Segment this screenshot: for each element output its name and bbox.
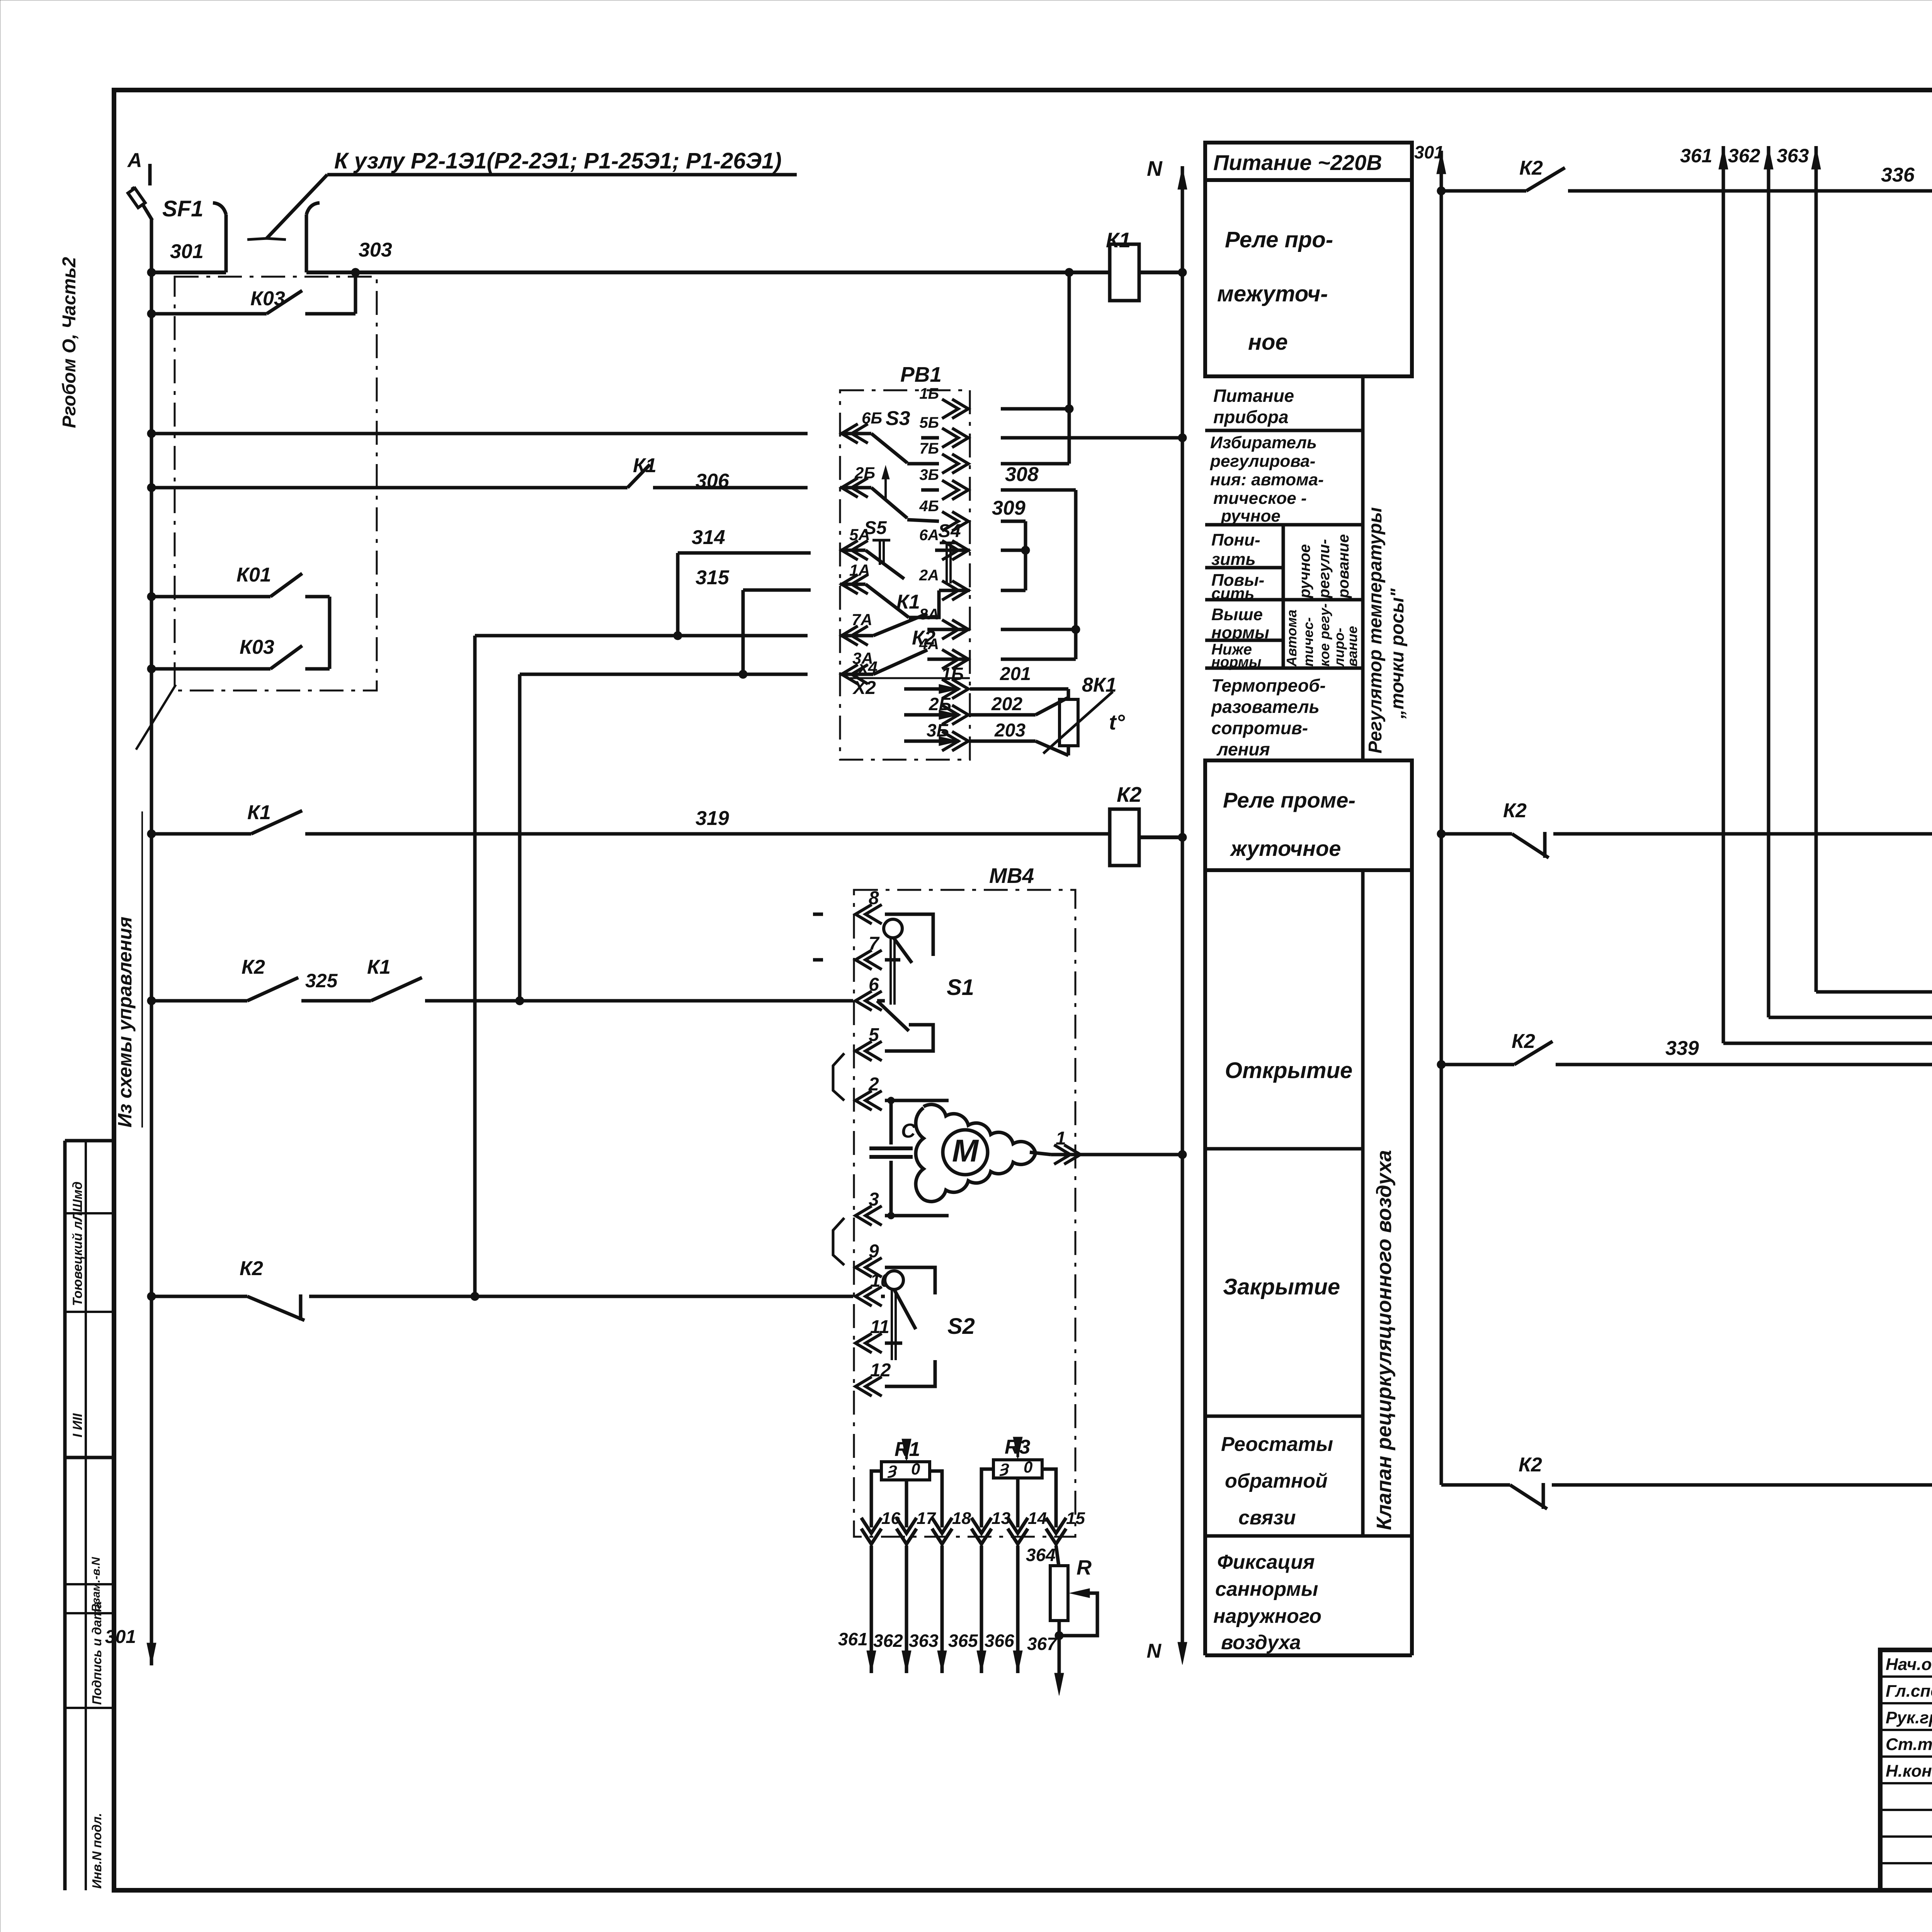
svg-text:Автома: Автома: [1284, 610, 1299, 667]
wire 301: [151, 270, 226, 274]
title block outer: [1880, 1650, 1932, 1890]
svg-text:тичес-: тичес-: [1300, 617, 1316, 667]
svg-text:регулирова-: регулирова-: [1210, 452, 1315, 471]
R3 right lead: [1042, 1469, 1056, 1527]
svg-text:ȝ: ȝ: [999, 1458, 1009, 1476]
svg-text:14: 14: [1028, 1509, 1047, 1528]
PB1 pin 2Б: [842, 478, 868, 497]
svg-text:315: 315: [696, 566, 730, 589]
contact K03 lower: [270, 646, 302, 669]
title sig rows: [1880, 1675, 1932, 1678]
wire 303: [306, 270, 1111, 274]
svg-text:Выше: Выше: [1211, 605, 1263, 624]
MV4 pin 17: [896, 1518, 917, 1544]
svg-text:308: 308: [1005, 463, 1039, 486]
PB1 dash box: [840, 390, 970, 760]
svg-text:разователь: разователь: [1211, 697, 1320, 717]
PB1 pin 2А: [942, 581, 968, 600]
table bottom: [1205, 1653, 1412, 1657]
svg-text:К2: К2: [1503, 799, 1527, 822]
R3 wiper arrow: [1017, 1442, 1019, 1457]
contact K01: [270, 573, 302, 597]
wire 362 riser top: [1767, 146, 1770, 166]
R3 wiper lead: [1016, 1478, 1020, 1527]
svg-text:Гл.спец.: Гл.спец.: [1886, 1682, 1932, 1701]
wire PB1 feed vertical: [1068, 272, 1071, 464]
thermistor 8K1: [1060, 699, 1078, 746]
MV4 S2 pivot: [885, 1271, 903, 1289]
mech linkage box K0: [175, 277, 377, 690]
wire 367 bottom: [1058, 1636, 1061, 1673]
svg-text:1Б: 1Б: [919, 385, 939, 402]
junction 7A row bottom: [471, 1292, 479, 1301]
R1 right lead: [930, 1471, 942, 1527]
svg-text:t°: t°: [1109, 710, 1125, 734]
svg-text:363: 363: [909, 1631, 939, 1651]
svg-text:366: 366: [985, 1631, 1014, 1651]
PB1 pin 5Б: [942, 428, 968, 447]
svg-text:303: 303: [359, 239, 392, 261]
N bus left: [1181, 166, 1184, 1645]
wire row 306: [151, 486, 628, 490]
MV4 pin 16: [861, 1518, 881, 1544]
svg-text:К2: К2: [1519, 157, 1543, 179]
PB1 pin 1Б: [942, 399, 968, 418]
svg-text:К2: К2: [1519, 1454, 1542, 1476]
svg-text:К03: К03: [250, 287, 285, 310]
wire 366: [1016, 1546, 1020, 1650]
wire K01 row: [151, 595, 270, 599]
wire 362 riser: [1767, 166, 1770, 1017]
switch S3: [840, 432, 871, 435]
MV4 pin 13: [971, 1518, 992, 1544]
svg-text:11: 11: [870, 1317, 889, 1337]
svg-text:жуточное: жуточное: [1230, 836, 1341, 861]
wire 5Б stub: [921, 436, 939, 440]
svg-text:Ргобом О, Часть2: Ргобом О, Часть2: [59, 257, 80, 428]
wire 336 row: [1441, 189, 1526, 193]
wire 308 vertical: [1074, 490, 1078, 659]
svg-text:18: 18: [952, 1509, 971, 1528]
bracket riser left: [224, 214, 228, 272]
svg-text:N: N: [1146, 1640, 1162, 1662]
MV4 wire 6 blade: [877, 999, 885, 1003]
svg-text:А: А: [127, 149, 142, 172]
svg-text:сопротив-: сопротив-: [1211, 718, 1308, 738]
wire 362: [905, 1546, 908, 1650]
svg-text:336: 336: [1881, 164, 1915, 186]
wire 7Б row: [1001, 462, 1069, 466]
margin table upper: [65, 1139, 114, 1143]
relay coil K2: [1110, 809, 1139, 866]
table питание 220 box: [1205, 143, 1412, 180]
junction 303/PB1 feed: [1065, 268, 1073, 277]
svg-text:прибора: прибора: [1213, 407, 1289, 427]
svg-text:К1: К1: [247, 801, 271, 824]
contact K2 339: [1514, 1041, 1553, 1065]
callout underline: [327, 173, 797, 177]
svg-text:Фиксация: Фиксация: [1217, 1551, 1315, 1573]
svg-text:К01: К01: [236, 564, 271, 586]
bracket center tie: [247, 238, 286, 240]
MV4 S1 pivot: [884, 919, 902, 938]
svg-text:8К1: 8К1: [1082, 674, 1117, 696]
bus A bottom arrow: [147, 1643, 156, 1665]
svg-text:4Б: 4Б: [919, 498, 939, 515]
svg-text:202: 202: [991, 694, 1022, 714]
svg-text:Избиратель: Избиратель: [1210, 433, 1317, 452]
svg-text:обратной: обратной: [1225, 1470, 1328, 1492]
rheostat R3: [993, 1460, 1042, 1478]
svg-text:нормы: нормы: [1211, 654, 1261, 670]
svg-text:К2: К2: [1117, 782, 1142, 806]
junction 3A row 325: [515, 997, 524, 1005]
svg-text:309: 309: [992, 497, 1026, 519]
svg-text:Питание ~220В: Питание ~220В: [1213, 150, 1382, 175]
svg-text:ȝ: ȝ: [887, 1459, 897, 1478]
wire 319 row: [151, 832, 251, 836]
MV4 link 5-2: [833, 1053, 844, 1100]
wire row 7A: [475, 634, 808, 638]
wire 4Б 309 vertical: [1024, 521, 1027, 590]
svg-text:2Б: 2Б: [854, 464, 875, 482]
line under x4: [850, 677, 970, 679]
svg-text:саннормы: саннормы: [1215, 1578, 1318, 1600]
svg-text:Открытие: Открытие: [1225, 1058, 1352, 1083]
contact K2 right: [1512, 834, 1549, 858]
svg-text:S2: S2: [947, 1314, 975, 1339]
contact K1 row 325: [371, 978, 422, 1001]
MV4 motor winding: [916, 1104, 1036, 1201]
wire 6А row: [1001, 549, 1026, 552]
svg-text:К1: К1: [1106, 228, 1131, 252]
svg-text:SF1: SF1: [162, 196, 203, 221]
wire 5Б row to N: [1001, 436, 1182, 440]
svg-text:Х2: Х2: [852, 678, 876, 698]
MV4 capacitor C: [889, 1100, 893, 1145]
svg-text:ния: автома-: ния: автома-: [1210, 470, 1324, 489]
svg-text:Термопреоб-: Термопреоб-: [1211, 675, 1326, 696]
svg-text:363: 363: [1777, 145, 1809, 167]
svg-text:кое регу-: кое регу-: [1316, 604, 1332, 667]
svg-text:воздуха: воздуха: [1221, 1631, 1301, 1654]
junction 303/K03: [351, 268, 360, 277]
bus A vertical: [150, 219, 153, 1647]
PB1 sensor row 1Б: [939, 684, 959, 694]
wire row K2 bottom: [151, 1295, 247, 1298]
svg-text:х4: х4: [858, 658, 878, 677]
svg-text:Питание: Питание: [1213, 386, 1294, 406]
svg-text:3Б: 3Б: [919, 466, 939, 483]
svg-text:306: 306: [696, 470, 730, 492]
MV4 pin 12: [855, 1377, 882, 1396]
svg-text:Инв.N подл.: Инв.N подл.: [90, 1813, 104, 1889]
svg-text:7Б: 7Б: [919, 440, 939, 457]
svg-text:1Б: 1Б: [941, 664, 964, 684]
table subgrid: [1205, 375, 1412, 378]
svg-text:361: 361: [838, 1629, 868, 1649]
relay coil K1: [1110, 244, 1139, 301]
svg-text:6А: 6А: [919, 527, 939, 544]
PB1 pin 6Б: [842, 424, 868, 443]
PB1 pin 7А: [842, 626, 868, 645]
rheostat R1: [881, 1462, 930, 1480]
MV4 link 3-9: [833, 1218, 844, 1265]
MV4 pin 10: [855, 1287, 882, 1306]
PB1 sensor row 3Б: [939, 736, 959, 746]
R1 left lead: [871, 1471, 881, 1527]
svg-text:201: 201: [1000, 664, 1031, 684]
wire row 6B: [151, 432, 808, 435]
PB1 sensor row 2Б: [939, 710, 959, 719]
PB1 pin 8А: [942, 620, 968, 639]
svg-text:15: 15: [1066, 1509, 1085, 1528]
svg-text:0: 0: [911, 1460, 920, 1478]
svg-text:S3: S3: [886, 407, 910, 430]
PB1 pin 4Б: [942, 512, 968, 531]
contact K1 PB1: [840, 634, 873, 638]
wire 8А row: [1001, 628, 1076, 631]
svg-text:301: 301: [105, 1627, 136, 1647]
PB1 pin 3А: [842, 665, 868, 684]
MV4 wire 7: [885, 958, 900, 962]
svg-text:1: 1: [1056, 1128, 1066, 1149]
svg-text:7А: 7А: [852, 611, 872, 629]
MV4 pin 9: [855, 1258, 882, 1277]
svg-text:314: 314: [692, 526, 725, 549]
svg-text:7: 7: [869, 934, 880, 954]
wire 315: [743, 588, 811, 592]
svg-text:2Б: 2Б: [929, 694, 951, 714]
svg-text:5Б: 5Б: [919, 414, 939, 431]
svg-text:К2: К2: [1512, 1030, 1535, 1053]
wire K2 bottom right: [1441, 1483, 1510, 1487]
R1 wiper lead: [905, 1480, 908, 1527]
svg-text:МВ4: МВ4: [989, 864, 1034, 888]
contact K2 336: [1526, 168, 1565, 191]
svg-text:сить: сить: [1211, 584, 1254, 602]
svg-text:R: R: [1077, 1556, 1092, 1579]
resistor R: [1050, 1566, 1068, 1621]
wire 363 riser top: [1815, 146, 1818, 166]
svg-text:2А: 2А: [919, 567, 939, 584]
svg-text:К1: К1: [633, 454, 656, 477]
breaker SF1: [148, 164, 152, 185]
MV4 wire 9b: [885, 1267, 935, 1294]
N bus bottom arrow: [1178, 1642, 1187, 1665]
R3 left lead: [981, 1469, 993, 1527]
svg-text:8: 8: [869, 888, 879, 908]
MV4 pin 14: [1008, 1518, 1028, 1544]
svg-text:301: 301: [1414, 142, 1444, 162]
wire row 3A: [520, 673, 808, 676]
MV4 pin 3: [855, 1206, 882, 1225]
divider закрытие/реостаты: [1205, 1415, 1363, 1418]
PB1 pin 4А: [942, 650, 968, 669]
svg-text:тическое -: тическое -: [1213, 489, 1307, 508]
wire 2А row: [1001, 589, 1026, 592]
svg-text:ручное: ручное: [1221, 507, 1281, 526]
MV4 wire 2 to winding: [949, 1100, 962, 1114]
svg-text:0: 0: [1024, 1458, 1032, 1476]
svg-text:12: 12: [870, 1360, 891, 1381]
svg-text:S1: S1: [947, 975, 974, 1000]
callout leader: [267, 175, 327, 238]
svg-text:К1: К1: [367, 956, 391, 978]
svg-text:301: 301: [170, 240, 204, 263]
svg-text:M: M: [952, 1133, 979, 1168]
svg-text:N: N: [1147, 156, 1163, 180]
svg-text:связи: связи: [1238, 1507, 1296, 1529]
svg-text:К03: К03: [240, 636, 274, 658]
301 bus top arrow: [1437, 151, 1446, 174]
MV4 wire 11: [885, 1342, 902, 1345]
PB1 pin 5А: [842, 541, 868, 560]
svg-text:364: 364: [1026, 1545, 1056, 1565]
wire 314: [678, 551, 811, 555]
svg-text:зить: зить: [1211, 550, 1256, 569]
svg-text:Реле проме-: Реле проме-: [1223, 788, 1355, 812]
svg-text:ления: ления: [1216, 739, 1270, 759]
svg-text:367: 367: [1027, 1634, 1058, 1654]
svg-text:C: C: [901, 1120, 916, 1142]
contact K03: [267, 291, 302, 314]
MV4 wire 2: [885, 1099, 949, 1102]
contact K1 row 319: [251, 811, 302, 834]
wire 361 riser top: [1722, 146, 1725, 166]
svg-text:рование: рование: [1335, 534, 1352, 599]
svg-text:325: 325: [305, 970, 338, 992]
MV4 wire 8: [885, 914, 933, 956]
svg-text:К1: К1: [896, 591, 920, 613]
svg-text:вание: вание: [1344, 626, 1360, 667]
margin table lower: [63, 1458, 67, 1890]
table открытие box: [1203, 870, 1207, 1655]
MV4 pin 11: [855, 1333, 882, 1353]
PB1 pin 6А: [942, 541, 968, 560]
svg-text:Реле про-: Реле про-: [1225, 227, 1333, 252]
MV4 wire 3: [885, 1214, 949, 1218]
svg-text:362: 362: [1728, 145, 1760, 167]
svg-text:3: 3: [869, 1189, 879, 1210]
svg-text:К узлу Р2-1Э1(Р2-2Э1; Р1-25Э1;: К узлу Р2-1Э1(Р2-2Э1; Р1-25Э1; Р1-26Э1): [334, 148, 782, 173]
bracket riser right: [305, 214, 308, 272]
svg-text:К2: К2: [912, 627, 935, 649]
svg-text:362: 362: [873, 1631, 903, 1651]
divider реостаты/фиксация: [1205, 1534, 1412, 1538]
301 bus: [1440, 151, 1443, 1485]
svg-text:Клапан рециркуляционного воз: Клапан рециркуляционного воздуха: [1372, 1150, 1396, 1530]
svg-text:ручное: ручное: [1296, 544, 1313, 599]
svg-text:203: 203: [994, 720, 1026, 741]
wire 365: [980, 1546, 983, 1650]
divider открытие/закрытие: [1205, 1147, 1363, 1151]
svg-text:нормы: нормы: [1211, 623, 1269, 642]
contact K2 PB1: [840, 673, 873, 676]
table реле проме box: [1205, 760, 1412, 870]
MV4 pin 15: [1046, 1518, 1066, 1544]
svg-text:Подпись и дата: Подпись и дата: [90, 1602, 104, 1705]
svg-text:6Б: 6Б: [862, 409, 882, 427]
svg-text:наружного: наружного: [1213, 1605, 1321, 1628]
svg-text:Закрытие: Закрытие: [1223, 1274, 1340, 1299]
svg-text:Реостаты: Реостаты: [1221, 1433, 1333, 1456]
PB1 pin 1А: [842, 575, 868, 594]
MV4 S2 wire 10: [881, 1295, 885, 1298]
MV4 pin 6: [855, 991, 882, 1010]
MV4 wire 9: [885, 1216, 949, 1267]
svg-text:Ст.техн.: Ст.техн.: [1886, 1735, 1932, 1754]
wire coil K1 to N: [1139, 270, 1182, 274]
wire 4Б 309: [1001, 520, 1026, 523]
svg-text:319: 319: [696, 807, 729, 830]
wire 363: [940, 1546, 944, 1650]
wire 3Б 308: [1001, 488, 1076, 492]
contact K2 bottom: [247, 1296, 304, 1320]
MV4 pin 8: [855, 905, 882, 924]
wire 361: [870, 1546, 873, 1650]
wire 1Б row: [1001, 407, 1069, 411]
MV4 pin 5: [855, 1041, 882, 1061]
PB1 pin 7Б: [942, 454, 968, 473]
MV4 pin 7: [855, 950, 882, 969]
svg-text:К2: К2: [240, 1257, 263, 1280]
svg-text:К2: К2: [241, 956, 265, 978]
svg-text:1А: 1А: [849, 561, 870, 579]
contact K2 row 325: [247, 978, 298, 1001]
wire K03 lower row: [151, 667, 270, 671]
svg-text:Нач.отд.: Нач.отд.: [1886, 1655, 1932, 1674]
svg-text:регули-: регули-: [1316, 539, 1333, 599]
svg-text:межуточ-: межуточ-: [1217, 281, 1328, 306]
svg-text:Регулятор температуры: Регулятор температуры: [1365, 507, 1386, 753]
leader line from note: [136, 685, 176, 750]
svg-text:Из схемы управления: Из схемы управления: [114, 917, 136, 1128]
handle S5: [872, 539, 890, 542]
wire 363 riser: [1815, 166, 1818, 992]
svg-text:365: 365: [948, 1631, 978, 1651]
MV4 motor M: [943, 1130, 988, 1175]
svg-text:Рук.гр.: Рук.гр.: [1886, 1708, 1932, 1727]
wire 364 to R: [1056, 1546, 1059, 1566]
svg-text:3Б: 3Б: [927, 720, 949, 740]
MV4 pin 18: [932, 1518, 952, 1544]
table реле пром box: [1205, 180, 1412, 376]
PB1 auto arrow: [884, 469, 887, 498]
MV4 pin 2: [855, 1091, 882, 1110]
R1 wiper arrow: [905, 1444, 908, 1459]
svg-text:Н.контр.: Н.контр.: [1886, 1762, 1932, 1781]
svg-text:S4: S4: [938, 521, 961, 541]
svg-text:Пони-: Пони-: [1211, 531, 1260, 549]
contact K2 bottom right: [1510, 1485, 1547, 1509]
wire K2 row right: [1441, 832, 1512, 836]
wire 4А row: [1001, 658, 1076, 661]
svg-text:„точки росы": „точки росы": [1387, 588, 1408, 719]
svg-text:339: 339: [1665, 1037, 1699, 1060]
svg-text:2: 2: [868, 1074, 879, 1095]
svg-text:5: 5: [869, 1025, 879, 1045]
wire 3Б stub: [921, 488, 939, 492]
wire row 325: [151, 999, 247, 1003]
switch S5 row2: [840, 486, 871, 490]
MV4 motor output 1: [1030, 1152, 1051, 1155]
svg-text:S5: S5: [864, 518, 887, 538]
svg-text:Тоювецкий лЛШмд: Тоювецкий лЛШмд: [70, 1182, 85, 1306]
N bus top arrow: [1178, 167, 1187, 189]
wire 301 to table: [1414, 190, 1441, 191]
MV4 dash box: [854, 890, 1075, 1537]
